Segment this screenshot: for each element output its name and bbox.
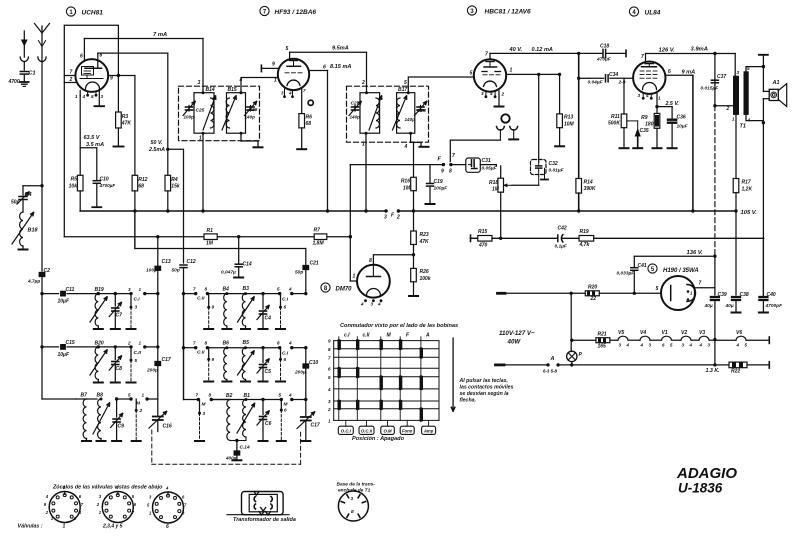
svg-text:C40: C40	[767, 292, 776, 298]
capacitor C10 4700pF	[96, 148, 98, 180]
pin 8 wire up	[97, 53, 99, 68]
svg-text:4700: 4700	[8, 79, 20, 85]
stub row1 b2 right	[280, 294, 282, 306]
svg-text:T1: T1	[740, 124, 746, 130]
svg-text:0.12 mA: 0.12 mA	[532, 47, 553, 53]
svg-text:4: 4	[699, 343, 703, 348]
svg-text:2: 2	[127, 341, 131, 346]
potentiometer R18 1M	[500, 166, 502, 178]
V3 bottom pins	[485, 95, 488, 98]
trimmer C5	[261, 346, 264, 349]
svg-text:63.5 V: 63.5 V	[84, 135, 101, 141]
capacitor C42 0.1µF	[557, 235, 559, 242]
trimmer C27	[354, 106, 356, 112]
svg-text:las contactos móviles: las contactos móviles	[460, 385, 514, 391]
svg-text:0.05µF: 0.05µF	[482, 166, 498, 172]
svg-text:C8: C8	[116, 366, 123, 372]
svg-text:8.15 mA: 8.15 mA	[330, 64, 351, 70]
svg-text:HBC81 / 12AV6: HBC81 / 12AV6	[485, 9, 532, 16]
svg-text:C6: C6	[265, 421, 272, 427]
svg-text:3: 3	[371, 302, 374, 307]
svg-text:flecha.: flecha.	[460, 398, 476, 404]
pin 5 top cap wire	[289, 52, 291, 59]
variable capacitor C17 gang	[305, 400, 307, 416]
chassis secondary	[762, 55, 764, 67]
svg-text:6: 6	[284, 305, 287, 310]
trimmer C28	[420, 106, 422, 112]
svg-text:3: 3	[481, 91, 484, 96]
svg-text:3: 3	[328, 399, 331, 404]
svg-text:1: 1	[139, 341, 142, 346]
wire to mains junction	[714, 340, 716, 365]
shielded capacitor C31	[466, 158, 481, 172]
svg-text:0,1µF: 0,1µF	[555, 244, 568, 250]
node secondary top	[762, 65, 765, 68]
svg-text:3: 3	[384, 215, 387, 221]
svg-text:B7: B7	[81, 393, 88, 399]
node screen rail	[691, 209, 694, 212]
svg-text:R20: R20	[588, 285, 597, 291]
svg-text:C10: C10	[100, 177, 109, 183]
svg-text:C12: C12	[187, 259, 196, 265]
IF1 shield box dashed	[179, 86, 260, 141]
node AVC C14	[237, 235, 240, 238]
coil B17 winding	[397, 98, 400, 128]
svg-text:B6: B6	[223, 341, 230, 347]
wire secondary top	[746, 67, 763, 72]
svg-text:A1: A1	[772, 80, 780, 86]
capacitor C1	[20, 71, 28, 73]
wire secondary bottom	[746, 115, 763, 121]
svg-text:C.II: C.II	[197, 350, 205, 356]
heater V5	[610, 339, 618, 341]
svg-text:40µ: 40µ	[704, 303, 713, 309]
svg-text:9: 9	[328, 339, 331, 344]
svg-text:4: 4	[288, 287, 292, 292]
audio line terminal	[470, 235, 472, 241]
wire row3 b2	[211, 399, 281, 401]
svg-text:5: 5	[470, 71, 473, 77]
node heater pilot	[570, 292, 573, 295]
svg-text:C.I: C.I	[282, 297, 289, 303]
svg-text:C4: C4	[265, 316, 272, 322]
wire antenna row2-row3	[41, 347, 43, 399]
svg-text:O.C.I: O.C.I	[341, 428, 352, 433]
designator 8 DM70	[321, 283, 330, 292]
svg-text:4,7µµ: 4,7µµ	[27, 279, 40, 285]
svg-text:10M: 10M	[564, 122, 575, 128]
node pin9/R3	[117, 74, 120, 77]
svg-text:C15: C15	[66, 340, 75, 346]
svg-text:7: 7	[328, 355, 331, 360]
wire B15 top pin 4	[241, 78, 278, 93]
wire 9.5mA line	[290, 51, 367, 53]
wire jack to switch F	[450, 140, 500, 161]
heater feed terminal	[498, 292, 506, 295]
wire antenna row1-row2	[41, 294, 43, 347]
switch CII contacts row1	[184, 293, 196, 295]
node C41 heater	[633, 292, 636, 295]
wire R12 to AGC bus	[134, 211, 136, 249]
V3 internals	[486, 61, 494, 63]
svg-text:HF93 / 12BA6: HF93 / 12BA6	[275, 9, 317, 16]
svg-text:2,3,4 y 5: 2,3,4 y 5	[102, 524, 123, 530]
svg-text:7: 7	[303, 88, 306, 93]
resistor R5 10k	[79, 148, 81, 176]
svg-text:9.5mA: 9.5mA	[332, 46, 349, 52]
svg-text:R19: R19	[580, 229, 589, 235]
svg-text:10µF: 10µF	[58, 352, 70, 358]
svg-text:C18: C18	[600, 44, 609, 50]
node V2 anode rail	[326, 209, 329, 212]
svg-text:0.015µF: 0.015µF	[701, 86, 720, 92]
node R4 rail	[166, 209, 169, 212]
trimmer C7	[114, 292, 117, 295]
wire R5 to rail	[79, 191, 81, 211]
stub row2 b2 right	[280, 348, 282, 358]
svg-text:390K: 390K	[584, 186, 596, 192]
svg-text:R23: R23	[420, 232, 429, 238]
svg-text:2: 2	[139, 408, 143, 413]
svg-text:3: 3	[198, 80, 201, 86]
svg-text:68: 68	[306, 121, 312, 127]
svg-text:7: 7	[641, 54, 644, 60]
svg-text:6: 6	[284, 357, 287, 362]
capacitor C17 200p	[157, 294, 159, 361]
svg-text:R6: R6	[306, 115, 313, 121]
resistor R20 22	[585, 291, 599, 296]
capacitor C38 40µF	[735, 211, 737, 295]
wire cathode down	[79, 96, 81, 148]
wire pin4 to R16	[413, 142, 415, 177]
tube V2 HF93	[278, 59, 309, 90]
matrix frame	[333, 341, 335, 421]
wire row3 to C16	[147, 398, 158, 400]
IF1 coil unit B14	[194, 93, 214, 134]
svg-text:6: 6	[668, 69, 671, 75]
switch contacts row3 b2	[197, 398, 200, 401]
node row1 left	[40, 292, 43, 295]
svg-text:C.II: C.II	[134, 350, 142, 356]
wire b2 col down	[183, 294, 185, 348]
pin 1 stub	[350, 280, 357, 282]
wire 136V line	[634, 255, 715, 257]
svg-text:1: 1	[199, 136, 202, 142]
pickup jack P.U.	[501, 114, 509, 122]
svg-text:6: 6	[323, 65, 326, 71]
heater V6	[715, 339, 736, 341]
svg-text:A: A	[550, 356, 555, 362]
svg-text:R18: R18	[489, 180, 498, 186]
svg-text:47K: 47K	[121, 121, 132, 127]
trimmer C26	[250, 106, 252, 112]
T1 base socket	[338, 491, 368, 521]
resistor R11 500K grid leak	[623, 78, 625, 114]
resistor R22	[729, 362, 747, 368]
svg-text:470: 470	[478, 243, 488, 249]
designator 5 H190/35WA	[648, 264, 657, 273]
IF1 coil unit B15	[227, 93, 246, 134]
IF2 coil unit B17	[397, 93, 415, 134]
svg-text:1: 1	[353, 274, 356, 280]
capacitor C37	[714, 54, 716, 106]
svg-text:R5: R5	[71, 177, 78, 183]
svg-text:5: 5	[279, 393, 282, 398]
R6 ground	[301, 128, 303, 148]
tube designator 4 UL84	[629, 7, 638, 16]
svg-text:2: 2	[396, 215, 400, 221]
capacitor C2 4.7pF	[39, 272, 45, 277]
svg-text:4: 4	[640, 343, 644, 348]
svg-text:C.I: C.I	[134, 297, 141, 303]
svg-text:8: 8	[449, 169, 452, 175]
pilot lamp P	[570, 293, 572, 351]
pin 6 wire up	[83, 39, 85, 60]
chassis R3	[114, 146, 124, 148]
svg-text:C17: C17	[311, 423, 320, 429]
wire grid line from audio	[579, 77, 589, 79]
svg-text:C11: C11	[66, 287, 75, 293]
pin 1 wire	[506, 73, 560, 75]
trimmer C8	[114, 345, 117, 348]
pin 7 top wire	[489, 53, 491, 59]
wire T1 primary bottom	[735, 115, 737, 179]
svg-text:C27: C27	[351, 101, 360, 107]
svg-text:C25: C25	[196, 108, 205, 114]
wire B16 bottom pin 1	[365, 133, 367, 211]
wire F to C31	[451, 164, 466, 166]
svg-text:1M: 1M	[492, 187, 500, 193]
node B1 B2 bottom	[235, 439, 238, 442]
svg-text:4: 4	[239, 78, 243, 84]
heater V3	[692, 339, 699, 341]
svg-text:3: 3	[737, 70, 740, 75]
svg-text:Zócalos de las válvulas vistas: Zócalos de las válvulas vistas desde aba…	[52, 485, 163, 491]
svg-text:4: 4	[288, 393, 292, 398]
wire audio line	[492, 237, 558, 239]
resistor R1 1M	[204, 234, 217, 240]
svg-text:180: 180	[645, 122, 654, 128]
svg-text:B19: B19	[95, 287, 104, 293]
svg-text:Válvulas :: Válvulas :	[18, 524, 43, 530]
heater V1	[651, 339, 662, 341]
resistor R14 390K	[576, 179, 582, 194]
svg-text:50 V.: 50 V.	[151, 140, 163, 146]
svg-text:4: 4	[327, 387, 331, 392]
svg-text:C10: C10	[309, 360, 318, 366]
svg-text:6: 6	[166, 524, 169, 530]
svg-text:50p: 50p	[11, 200, 20, 206]
svg-text:C7: C7	[116, 313, 123, 319]
node antenna junction	[40, 184, 43, 187]
svg-text:C17: C17	[162, 357, 171, 363]
svg-text:4: 4	[689, 343, 693, 348]
svg-text:4: 4	[360, 302, 364, 307]
wire grid-leak loop	[64, 25, 118, 236]
wire screen drop	[692, 75, 694, 211]
node secondary bottom	[762, 121, 765, 124]
wire AVC line	[64, 236, 204, 238]
node row2 b2 left	[182, 346, 185, 349]
svg-text:4: 4	[288, 91, 292, 96]
node grid junction	[577, 77, 580, 80]
wire 7mA into B14	[202, 39, 204, 93]
wire audio to grid column	[594, 237, 764, 239]
svg-text:C4: C4	[25, 192, 32, 198]
svg-text:C37: C37	[717, 74, 726, 80]
svg-text:5: 5	[328, 375, 331, 380]
svg-text:7: 7	[196, 393, 199, 398]
svg-text:200µ: 200µ	[294, 370, 306, 376]
svg-text:1: 1	[510, 68, 513, 74]
trimmer C6	[261, 398, 264, 401]
node row2 C10	[304, 346, 307, 349]
svg-text:7: 7	[193, 341, 196, 346]
capacitor C13 100p	[157, 237, 159, 266]
svg-text:5: 5	[91, 94, 94, 99]
node row2 left	[40, 345, 43, 348]
shielded capacitor C32	[531, 160, 547, 175]
resistor R23 47K	[413, 211, 415, 231]
antenna A1	[23, 31, 25, 40]
svg-text:1: 1	[658, 96, 661, 101]
svg-text:C.I: C.I	[282, 351, 289, 357]
svg-text:3: 3	[203, 411, 206, 416]
svg-text:47K: 47K	[419, 239, 430, 245]
wire screen line	[98, 52, 168, 54]
trimmer C35	[627, 120, 638, 122]
svg-text:5: 5	[656, 286, 659, 292]
node row1 C13	[156, 292, 159, 295]
svg-text:4700µF: 4700µF	[99, 183, 116, 188]
IF2 coil unit B16	[360, 93, 380, 134]
svg-text:O.C.II: O.C.II	[361, 428, 373, 433]
node pin1/R13	[558, 73, 561, 76]
matrix key boxes	[338, 426, 353, 434]
svg-text:C.II: C.II	[197, 296, 205, 302]
svg-text:R17: R17	[742, 180, 751, 186]
wire 126V line	[646, 53, 736, 55]
wire row2 bank1	[42, 346, 59, 348]
pin 6 screen wire	[666, 74, 693, 76]
svg-text:40W: 40W	[507, 339, 522, 346]
coil B16 winding	[376, 98, 379, 128]
stub row3	[135, 399, 137, 409]
svg-text:0.01µF: 0.01µF	[549, 168, 565, 174]
switch C2 contacts row2	[129, 345, 132, 348]
switch contacts row2 b2	[184, 347, 196, 349]
V5 internals	[670, 286, 672, 301]
capacitor C19 100µF	[429, 165, 431, 183]
wire row2 b2	[207, 347, 279, 349]
node pin1/C32	[537, 73, 540, 76]
svg-text:40µ: 40µ	[725, 303, 734, 309]
wire b2 row3 left	[184, 399, 199, 401]
node pilot mains	[570, 363, 573, 366]
svg-text:1M: 1M	[206, 241, 214, 247]
svg-text:R12: R12	[138, 177, 147, 183]
svg-text:C39: C39	[718, 292, 727, 298]
svg-text:C21: C21	[310, 261, 319, 267]
svg-text:C1: C1	[29, 71, 36, 77]
tube V6 DM70	[357, 265, 390, 298]
svg-text:Transformador de salida: Transformador de salida	[233, 517, 296, 523]
svg-text:0.04µF: 0.04µF	[588, 80, 604, 86]
svg-text:Fono: Fono	[402, 428, 413, 433]
DM70 internals	[372, 265, 374, 277]
svg-text:Al pulsar las teclas,: Al pulsar las teclas,	[459, 378, 508, 384]
tube V3 HBC81	[474, 59, 506, 91]
svg-text:4: 4	[82, 94, 86, 99]
svg-text:4: 4	[404, 144, 408, 150]
svg-text:2: 2	[327, 407, 331, 412]
svg-text:c.I: c.I	[344, 333, 350, 339]
svg-text:5: 5	[404, 80, 407, 86]
svg-text:R13: R13	[564, 115, 573, 121]
svg-text:R1: R1	[207, 228, 214, 234]
svg-text:O.M: O.M	[383, 428, 392, 433]
V4 bottom pins	[642, 97, 645, 100]
svg-text:7: 7	[193, 287, 196, 292]
ground for C1	[20, 81, 29, 83]
svg-text:4700pF: 4700pF	[765, 303, 784, 309]
resistor R3 47K	[117, 76, 119, 113]
svg-text:165: 165	[598, 344, 607, 350]
resistor R7 1.8M	[314, 234, 327, 240]
wire C31 to R18	[480, 164, 496, 166]
heater V4	[629, 339, 640, 341]
svg-text:8: 8	[209, 393, 212, 398]
svg-text:4: 4	[288, 341, 292, 346]
stub row3 b2 right	[280, 400, 282, 409]
svg-text:V6: V6	[736, 330, 742, 336]
resistor R12 68	[132, 175, 138, 191]
heater V2	[672, 339, 681, 341]
grommet	[308, 100, 313, 105]
switch contacts row3 b2 right	[280, 398, 283, 401]
resistor R6 68	[299, 114, 305, 128]
V4 internals	[645, 63, 654, 65]
svg-text:C14: C14	[243, 262, 252, 268]
svg-text:1: 1	[274, 78, 277, 84]
wire R20 to tube5	[599, 292, 661, 294]
stub row1 b2	[208, 294, 210, 306]
socket valves 2345	[102, 492, 133, 523]
tube V4 UL84	[633, 61, 665, 93]
svg-text:C31: C31	[482, 158, 491, 164]
svg-text:7: 7	[70, 70, 73, 76]
pin 2 ground	[498, 91, 500, 106]
svg-text:C35: C35	[640, 128, 649, 134]
svg-text:C36: C36	[677, 115, 686, 121]
wire bus to C21	[305, 249, 307, 266]
wire row1 b2	[207, 293, 279, 295]
wire b2 col row2-row3	[183, 348, 185, 400]
wire C42 to R19	[563, 237, 580, 239]
svg-text:R4: R4	[171, 177, 178, 183]
wire heater chain start	[570, 339, 573, 342]
svg-text:1: 1	[63, 524, 66, 530]
node 126V junction	[713, 52, 716, 55]
svg-text:105 V.: 105 V.	[741, 210, 758, 216]
svg-text:3: 3	[638, 93, 641, 98]
svg-text:2: 2	[501, 92, 505, 97]
svg-text:V2: V2	[681, 330, 687, 336]
jack right ground	[509, 138, 518, 140]
svg-text:40 V.: 40 V.	[509, 47, 523, 53]
svg-text:Amp: Amp	[423, 428, 434, 433]
svg-text:C34: C34	[609, 72, 618, 78]
